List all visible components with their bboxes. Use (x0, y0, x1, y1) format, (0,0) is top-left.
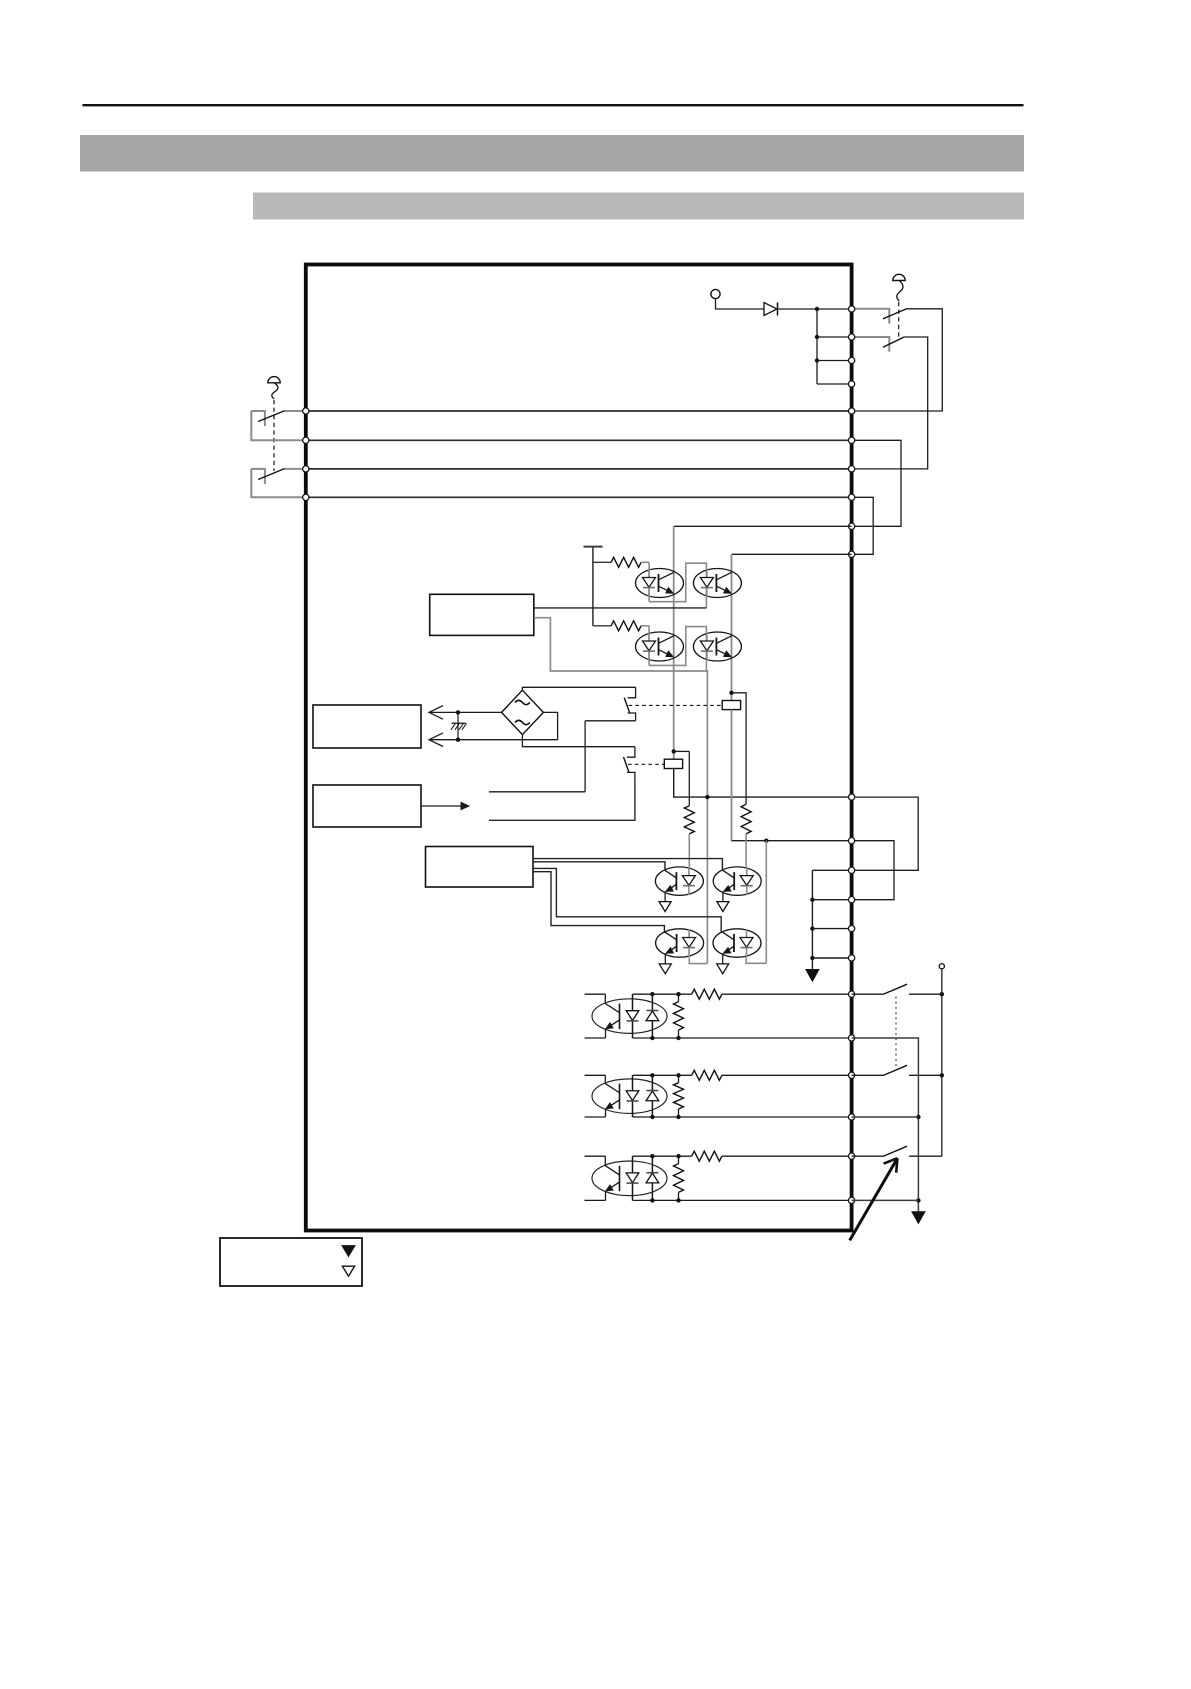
arrow into B1 lower (429, 739, 558, 741)
bottom contact K5 arm (852, 1155, 883, 1157)
node J2 (815, 335, 819, 339)
wire RY2 bottom out (674, 769, 852, 798)
monitor box B1 (313, 705, 421, 748)
node above RY1 (729, 691, 733, 695)
output box B3 (426, 847, 534, 888)
input row 3 opto (592, 1161, 667, 1196)
wire input line 4 (306, 496, 852, 498)
input row 3 shunt resistor (674, 1164, 684, 1193)
terminal left 2 (303, 437, 309, 443)
terminal right y360 (848, 357, 854, 363)
left contact S1 out rail (285, 410, 307, 412)
emitter arrow U7 (664, 953, 666, 964)
node row1 c (676, 992, 680, 996)
opto U4 (693, 632, 741, 661)
legend solid triangle (342, 1246, 355, 1257)
node common K4 (940, 1073, 944, 1077)
wire B3 line D (533, 872, 664, 933)
node row3 b (650, 1198, 654, 1202)
node tap y841 (764, 839, 768, 843)
wire B2 upper to J1 (489, 791, 585, 793)
gate resistor R2 (593, 625, 611, 627)
input row 2 series resistor (692, 1070, 722, 1080)
AC source diamond (502, 690, 544, 734)
wire B3 line B (533, 862, 665, 871)
node ground lower (456, 738, 460, 742)
driver box B2 (313, 785, 421, 827)
input row 1 opto (592, 999, 667, 1034)
node common K3 (940, 992, 944, 996)
input row 3 series resistor (692, 1151, 722, 1161)
header bar light (253, 193, 1024, 220)
wire B3 line A (533, 859, 722, 871)
terminal right y526 (848, 523, 854, 529)
terminal right line4 (848, 494, 854, 500)
wire J1 bottom to B2 line (585, 720, 636, 722)
node row1 a (650, 992, 654, 996)
relay linkage dashed J2 (628, 763, 664, 765)
terminal right y870 (848, 867, 854, 873)
header bar dark (80, 135, 1024, 172)
terminal right y958 (848, 955, 854, 961)
left contact S1 fixed rail (251, 411, 265, 426)
left switch actuator spring (272, 383, 278, 399)
right contact K1 arm (883, 309, 907, 319)
junction chain vertical (816, 309, 818, 384)
node row1 b (650, 1036, 654, 1040)
wire diamond right loop (543, 712, 557, 739)
terminal row1 bottom (848, 1035, 854, 1041)
terminal left 3 (303, 466, 309, 472)
terminal row3 top (848, 1153, 854, 1159)
return bus to bottom (706, 797, 708, 964)
emitter arrow U8 (722, 953, 724, 964)
wire loop line4 to y554 (852, 497, 874, 554)
opto U1 (636, 569, 684, 598)
input row 2 diode pair (632, 1075, 634, 1117)
LED wire row2 anode (648, 626, 650, 666)
wire loop line2 to y526 (852, 440, 901, 526)
wire stub to terminal y309 (817, 308, 852, 310)
wire diamond top to J1 contact (522, 687, 635, 690)
left contact S2 fixed rail (251, 469, 265, 484)
common vertical wire (941, 969, 943, 1156)
left contact S1 return wire (251, 411, 306, 440)
input row 2 bottom rail (585, 1116, 606, 1118)
right switch actuator spring (897, 281, 903, 302)
annotation arrow (850, 1158, 898, 1240)
relay contact J2 (627, 747, 635, 758)
right contact K1 out wire (852, 309, 943, 411)
wire input line 1 (306, 410, 852, 412)
terminal right y309 (848, 306, 854, 312)
right switch linkage dashed (898, 302, 900, 338)
ground arrow chain (806, 970, 819, 982)
terminal row2 bottom (848, 1114, 854, 1120)
right contact K2 fixed rail (852, 337, 890, 352)
left contact S1 arm (258, 411, 285, 422)
node J3 (815, 358, 819, 362)
wire stub to terminal y384 (817, 383, 852, 385)
wire diamond bottom to J2 contact (522, 735, 635, 747)
opto U7 (656, 929, 704, 957)
opto U3 (636, 632, 684, 661)
LED wire row1 anode (648, 562, 650, 601)
wire diode to junction chain (778, 308, 818, 310)
wire from circle to diode (716, 299, 765, 309)
wire loop y797 to y870 (852, 797, 919, 870)
signal vertical y526 bus (674, 525, 852, 527)
node row1 d (676, 1036, 680, 1040)
arrow into B1 upper (429, 711, 502, 713)
wire loop y841 to y900 (852, 841, 894, 900)
diode D1 (764, 303, 777, 316)
terminal row3 bottom (848, 1197, 854, 1203)
gate resistor R1 (593, 561, 611, 563)
input row 2 opto (592, 1079, 667, 1114)
node return tap y797 (705, 795, 709, 799)
right contact K2 out wire (852, 337, 928, 469)
terminal right y841 (848, 838, 854, 844)
relay contact J1 (628, 687, 636, 698)
ground arrow bottom (912, 1212, 925, 1224)
emitter arrow U5 (664, 891, 666, 901)
terminal right line1 (848, 408, 854, 414)
terminal left 1 (303, 408, 309, 414)
resistor R3 (688, 751, 690, 805)
signal vertical y554 bus (732, 553, 852, 555)
node J1 (815, 307, 819, 311)
node row2 c (676, 1073, 680, 1077)
relay linkage dashed J1 (629, 704, 723, 706)
left contact S2 out rail (285, 468, 307, 470)
LED wire row1 link (649, 563, 706, 608)
bottom contact K4 arm (852, 1074, 883, 1076)
node O3 (810, 956, 814, 960)
wire stub to terminal y360 (817, 360, 852, 362)
node O1 (810, 898, 814, 902)
wire RY1 bottom out (732, 840, 852, 842)
left switch actuator dome (268, 377, 280, 383)
input row 2 top rail (585, 1074, 606, 1076)
supply stub bar (584, 546, 603, 548)
input row 1 top rail (585, 993, 606, 995)
node O2 (810, 926, 814, 930)
input row 1 bottom rail (585, 1037, 606, 1039)
resistor R4 (732, 693, 747, 805)
input row 2 shunt resistor (674, 1083, 684, 1109)
terminal right line3 (848, 466, 854, 472)
wire input line 3 (306, 468, 852, 470)
legend box (220, 1238, 362, 1286)
terminal right y554 (848, 551, 854, 557)
LED return branch x766 (765, 841, 767, 964)
node above RY2 (672, 749, 676, 753)
terminal row2 top (848, 1072, 854, 1078)
terminal right y929 (848, 925, 854, 931)
legend hollow triangle (342, 1266, 354, 1276)
LED wire row2 link (649, 627, 706, 671)
input row 3 top rail (585, 1155, 606, 1157)
bottom contact K3 arm (852, 993, 883, 995)
node row2 b (650, 1115, 654, 1119)
right switch actuator dome (893, 274, 905, 280)
relay coil RY2 (664, 759, 682, 768)
return wire lower (534, 618, 708, 797)
terminal row1 top (848, 991, 854, 997)
terminal right y384 (848, 381, 854, 387)
terminal right line2 (848, 437, 854, 443)
node row2 a (650, 1073, 654, 1077)
chassis ground (457, 712, 459, 739)
common return vertical (852, 1038, 919, 1212)
right contact K2 arm (883, 337, 904, 347)
opto U8 (713, 929, 761, 957)
wire B3 line C (533, 868, 721, 932)
wire input line 2 (306, 439, 852, 441)
wire J2 bottom to B2 line (489, 781, 635, 820)
input row 1 series resistor (692, 989, 722, 999)
common terminal circle (939, 964, 944, 969)
node return row3 (916, 1198, 920, 1202)
opto U2 (693, 569, 741, 598)
inverter main block outline (306, 265, 852, 1231)
left switch linkage dashed (273, 400, 275, 471)
arrow out of B2 (421, 805, 462, 807)
LED link under U7 (689, 957, 707, 963)
node row3 c (676, 1154, 680, 1158)
opto U5 (655, 867, 703, 895)
emitter arrow U6 (722, 891, 724, 901)
terminal right y337 (848, 334, 854, 340)
terminal left 4 (303, 494, 309, 500)
left contact S2 return wire (251, 469, 306, 497)
opto U6 (713, 867, 761, 895)
terminal right y900 (848, 897, 854, 903)
node ground upper (456, 710, 460, 714)
wire stub to terminal y337 (817, 336, 852, 338)
bottom linkage dashed (895, 997, 897, 1069)
terminal right y797 (848, 794, 854, 800)
right contact K1 fixed rail (852, 309, 890, 324)
output chain vertical (811, 870, 813, 969)
supply vertical (592, 547, 594, 626)
header rule (83, 104, 1024, 106)
input row 3 diode pair (632, 1156, 634, 1200)
left contact S2 arm (258, 469, 285, 480)
node row2 d (676, 1115, 680, 1119)
node return row2 (916, 1115, 920, 1119)
control terminal circle (711, 289, 720, 298)
input row 1 shunt resistor (674, 1002, 684, 1030)
feedback box B4 (430, 594, 534, 635)
relay coil RY1 (722, 701, 740, 710)
input row 3 bottom rail (585, 1199, 606, 1201)
wire RY1 down (731, 710, 733, 841)
input row 1 diode pair (632, 994, 634, 1038)
node row3 a (650, 1154, 654, 1158)
return wire row1 (534, 607, 707, 609)
LED link under U8 (746, 957, 766, 963)
node row3 d (676, 1198, 680, 1202)
